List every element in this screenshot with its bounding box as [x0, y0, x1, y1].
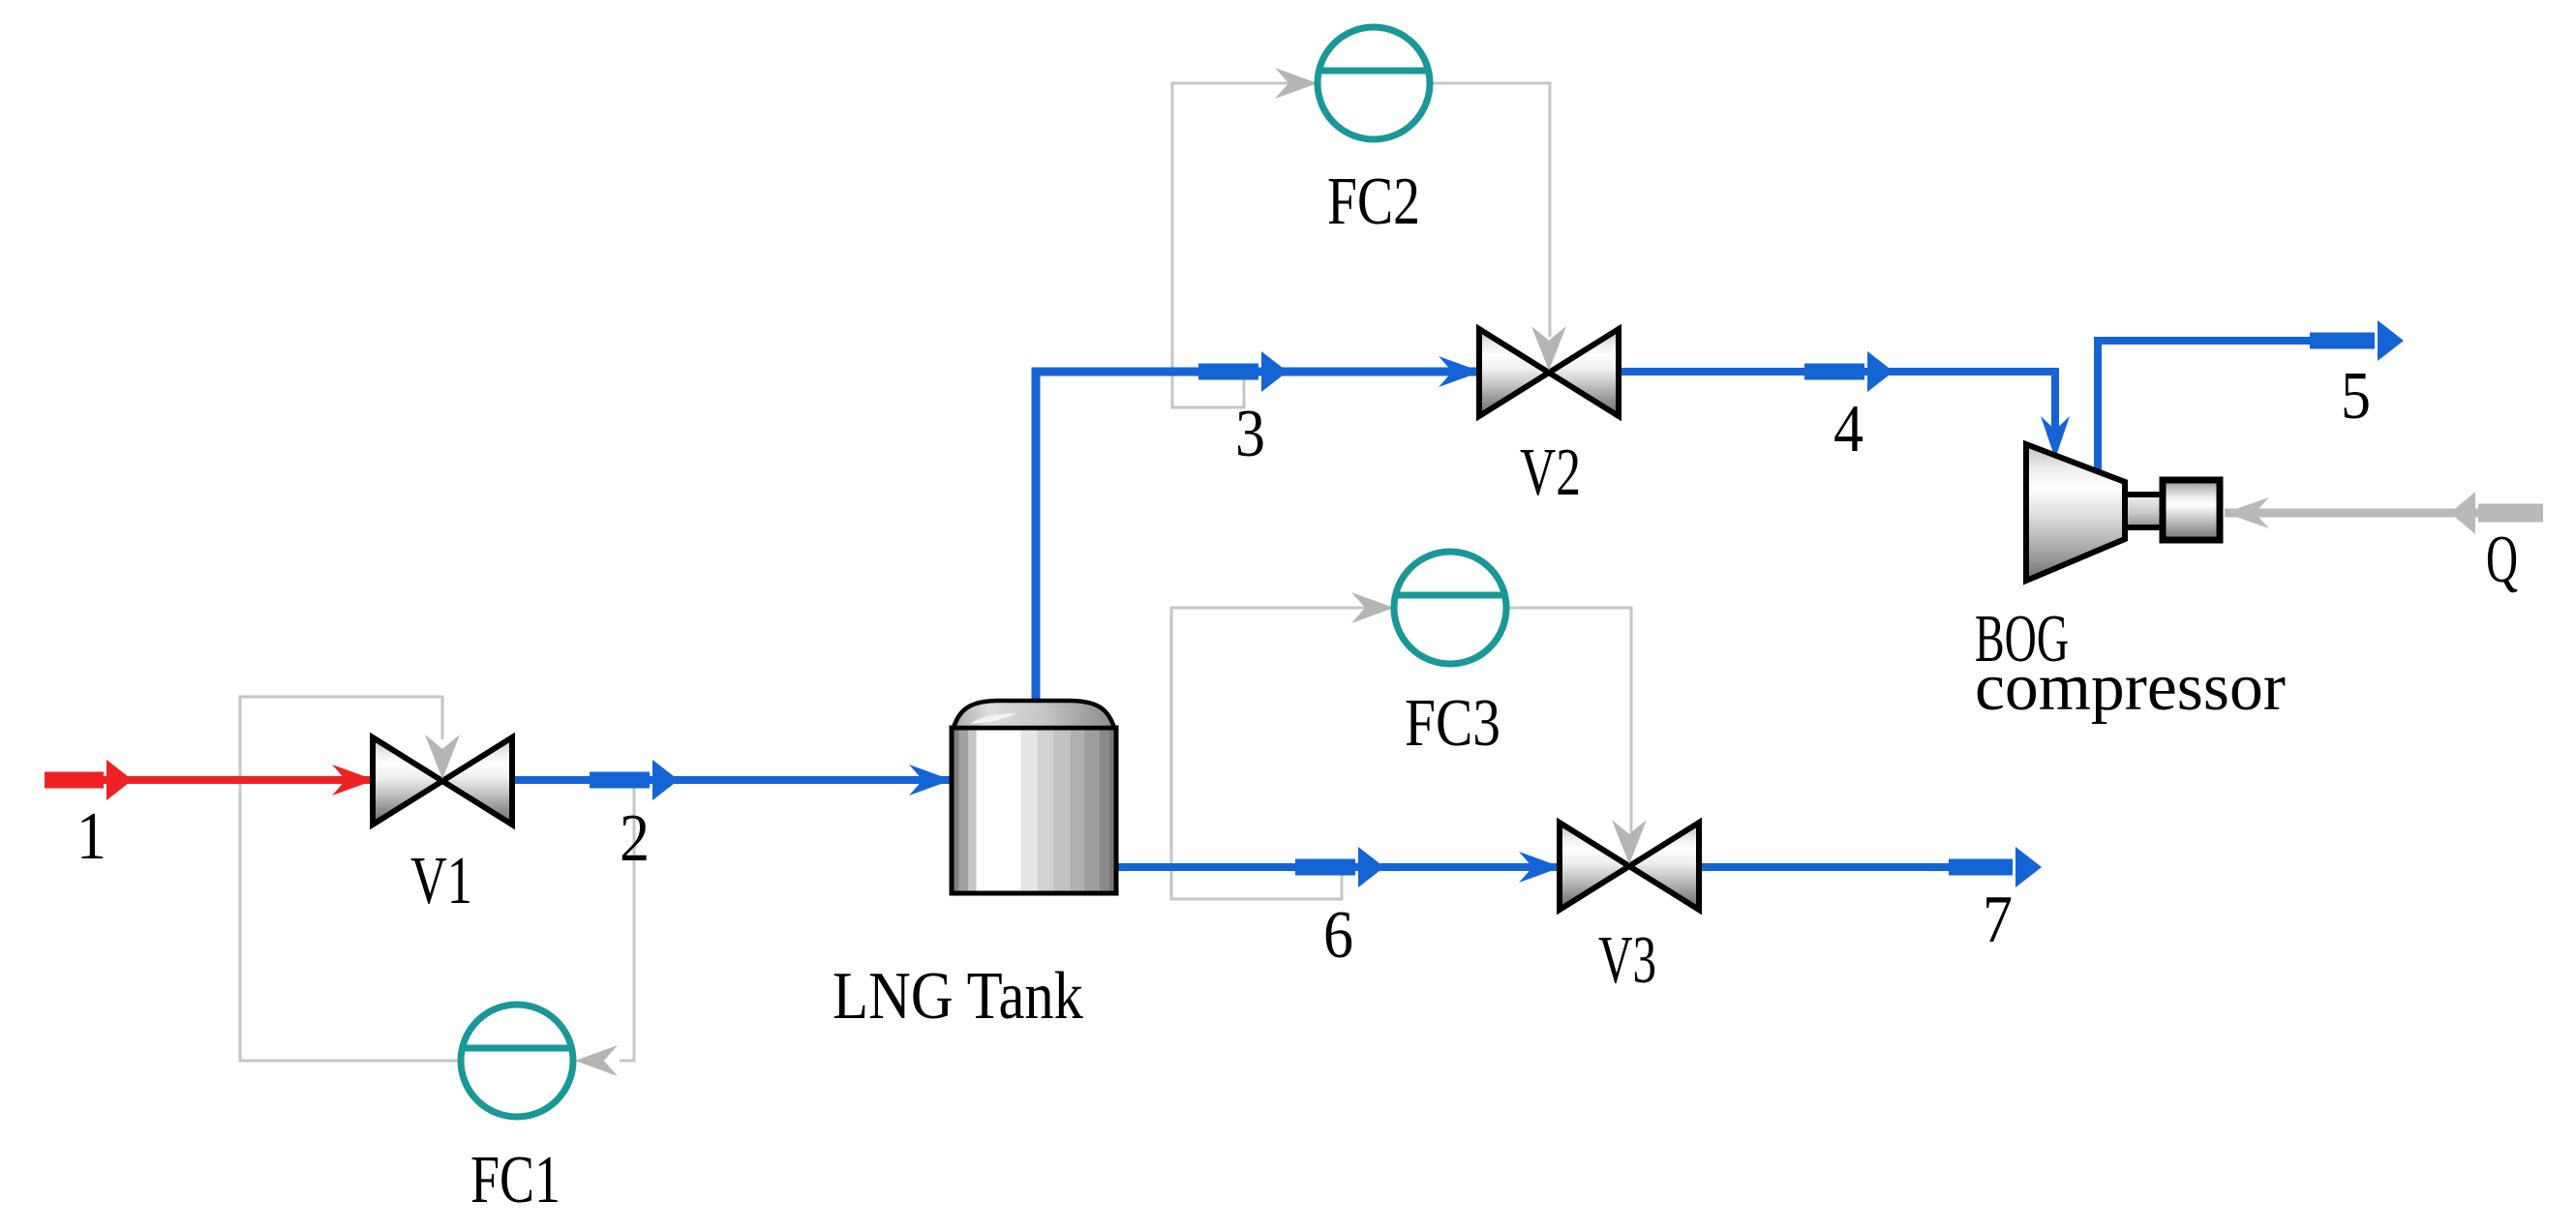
stream 4 thick marker: [1804, 351, 1894, 392]
controller FC3 circle: [1394, 552, 1506, 664]
stream 1 arrow into valve V1: [332, 765, 375, 796]
valve V3 actuator arrow: [1612, 820, 1647, 864]
svg-text:4: 4: [1834, 392, 1864, 466]
stream 7 thick marker: [1949, 847, 2042, 887]
stream 2 thick marker: [590, 760, 679, 800]
svg-text:5: 5: [2341, 359, 2371, 434]
LNG tank body: [952, 728, 1116, 893]
stream 4 blue line with elbow down to compressor: [1617, 372, 2055, 431]
FC1 signal loop frame: [240, 697, 634, 1061]
valve V1 body: [373, 737, 512, 825]
svg-text:compressor: compressor: [1975, 650, 2286, 725]
stream 1 thick marker: [45, 760, 133, 800]
energy stream Q thick marker: [2450, 492, 2543, 534]
stream 5 riser and top line: [2098, 341, 2316, 474]
stream 6 arrow into valve V3: [1519, 852, 1561, 883]
svg-text:V1: V1: [410, 844, 472, 918]
stream 2 arrow into LNG tank: [909, 765, 952, 796]
svg-text:7: 7: [1983, 883, 2013, 957]
BOG compressor motor cylinder: [2163, 480, 2220, 540]
LNG tank dome highlight: [971, 713, 1016, 724]
stream 7 blue line: [1697, 863, 1955, 871]
stream 6 thick marker: [1295, 847, 1384, 887]
stream 3 thick marker: [1198, 351, 1288, 392]
controller FC1 circle: [461, 1005, 573, 1117]
svg-text:LNG Tank: LNG Tank: [833, 959, 1083, 1034]
valve V3 body: [1560, 823, 1699, 910]
BOG compressor cone: [2026, 444, 2125, 581]
valve V2 actuator arrow: [1531, 326, 1566, 371]
BOG compressor shaft: [2125, 495, 2163, 527]
svg-text:3: 3: [1235, 397, 1265, 471]
svg-text:FC2: FC2: [1327, 165, 1420, 239]
FC2 signal loop frame: [1172, 83, 1550, 407]
svg-text:1: 1: [76, 799, 106, 874]
FC1 measured-input arrow from stream 2: [575, 1045, 618, 1076]
stream 2 blue line: [510, 776, 952, 784]
valve V2 body: [1479, 329, 1619, 416]
svg-text:V2: V2: [1520, 435, 1581, 510]
controller FC2 circle: [1318, 27, 1430, 139]
svg-text:FC3: FC3: [1405, 686, 1500, 761]
stream 5 thick marker: [2310, 320, 2404, 361]
energy stream Q line: [2225, 509, 2478, 518]
FC2 measured-input arrow from stream 3: [1275, 68, 1318, 99]
stream 3 riser from tank top: [1036, 372, 1481, 710]
LNG tank dome: [954, 701, 1114, 728]
stream 1 red line: [97, 776, 375, 784]
svg-text:6: 6: [1323, 898, 1353, 973]
valve V1 actuator arrow: [425, 735, 460, 779]
svg-text:V3: V3: [1598, 923, 1656, 998]
FC3 signal loop frame: [1171, 608, 1631, 899]
energy stream Q arrow into compressor: [2225, 497, 2269, 528]
svg-text:2: 2: [620, 801, 650, 876]
stream 6 blue line: [1116, 863, 1561, 871]
FC3 measured-input arrow from stream 6: [1351, 592, 1394, 623]
svg-text:FC1: FC1: [470, 1143, 561, 1217]
stream 4 arrow into compressor inlet: [2041, 416, 2070, 459]
svg-text:Q: Q: [2486, 523, 2518, 597]
stream 3 arrow into valve V2: [1439, 356, 1481, 387]
